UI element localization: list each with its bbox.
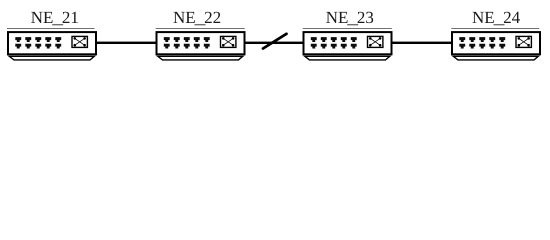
label NE_24 — [472, 12, 519, 26]
NE_24 device — [452, 32, 540, 60]
label underline NE_23 — [303, 28, 392, 30]
label NE_22 — [173, 12, 220, 26]
label NE_23 — [326, 12, 373, 26]
label NE_21 — [31, 12, 78, 26]
NE_21 device — [8, 32, 96, 60]
label underline NE_24 — [451, 28, 539, 30]
label underline NE_22 — [156, 28, 245, 30]
wire NE_22 to NE_23 — [244, 42, 305, 44]
wire NE_21 to NE_22 — [95, 42, 158, 44]
NE_22 device — [157, 32, 245, 60]
wire NE_23 to NE_24 — [391, 42, 454, 44]
NE_23 device — [304, 32, 392, 60]
label underline NE_21 — [7, 28, 95, 30]
fiber break slash — [263, 34, 287, 49]
